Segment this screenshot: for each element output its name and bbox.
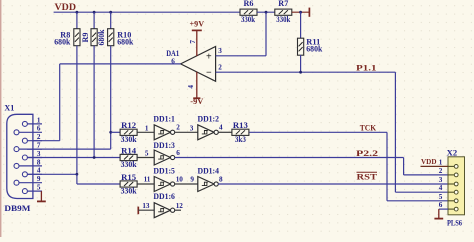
svg-text:3: 3 — [190, 124, 194, 132]
wire: R7 to bar — [292, 11, 309, 13]
svg-text:13: 13 — [142, 202, 150, 210]
svg-text:7: 7 — [189, 40, 197, 44]
svg-text:330k: 330k — [121, 135, 138, 144]
svg-text:330k: 330k — [241, 15, 255, 24]
svg-text:2: 2 — [439, 167, 443, 175]
X1 pin 9 — [17, 182, 43, 184]
svg-text:5: 5 — [439, 193, 443, 201]
svg-text:PLS6: PLS6 — [447, 219, 462, 228]
svg-text:8: 8 — [219, 175, 223, 183]
svg-text:4: 4 — [219, 124, 223, 132]
resistor R12 — [120, 129, 137, 135]
inverter DD1:5 — [154, 177, 170, 192]
wire: X1.4 to R8 column — [27, 173, 77, 175]
svg-text:P1.1: P1.1 — [356, 64, 377, 73]
power port VDD (X2 pin1) — [421, 165, 449, 167]
X1 pin 7 — [17, 148, 43, 150]
svg-text:-9V: -9V — [190, 97, 203, 106]
wire: X1.3 to R14 — [27, 157, 120, 159]
svg-text:DD1:4: DD1:4 — [198, 166, 220, 175]
svg-text:330k: 330k — [276, 15, 290, 24]
junction: R8/X1.4 — [76, 173, 79, 176]
ground bar (DD1:6 input) — [137, 207, 139, 215]
resistor R10 — [110, 12, 112, 29]
junction: rail/R9 — [93, 11, 96, 14]
svg-text:P2.2: P2.2 — [356, 149, 378, 158]
wire: R15 to DD1:5 — [137, 183, 154, 185]
svg-text:4: 4 — [439, 184, 443, 192]
power port +9V — [196, 30, 198, 56]
svg-text:6: 6 — [37, 125, 41, 133]
X2 pin 6 — [448, 208, 454, 210]
wire: DD1:4 out / net RST to X2.3 — [218, 183, 448, 185]
svg-text:−: − — [206, 68, 212, 79]
svg-text:1: 1 — [145, 124, 149, 132]
svg-text:R6: R6 — [244, 0, 254, 8]
svg-text:1: 1 — [439, 158, 443, 166]
wire: R14 to DD1:3 — [137, 157, 154, 159]
connector X1 DB9M — [7, 114, 33, 198]
resistor R15 — [120, 181, 137, 187]
svg-text:8: 8 — [37, 158, 41, 166]
svg-text:3: 3 — [439, 176, 443, 184]
svg-text:6: 6 — [439, 201, 443, 209]
svg-text:680k: 680k — [97, 29, 106, 46]
svg-text:R7: R7 — [278, 0, 288, 8]
svg-text:DD1:5: DD1:5 — [153, 166, 175, 175]
svg-text:4: 4 — [187, 85, 195, 89]
wire: node to R12 — [111, 131, 120, 133]
svg-text:X2: X2 — [447, 149, 458, 158]
X1 pin 5 — [25, 190, 42, 192]
svg-text:3k3: 3k3 — [235, 135, 246, 144]
wire: DD1:5 to DD1:4 — [175, 183, 198, 185]
junction: P1.1/R11 — [299, 71, 302, 74]
svg-text:TCK: TCK — [360, 124, 377, 133]
svg-text:10: 10 — [176, 175, 184, 183]
junction: R9/X1.3 — [93, 156, 96, 159]
op-amp DA1 — [181, 47, 216, 82]
resistor R8 — [76, 12, 78, 29]
wire: DD1:2 to R13 — [218, 131, 231, 133]
resistor R7 — [275, 9, 292, 15]
wire: R13 to X2.5 / net TCK — [249, 131, 387, 133]
wire: DD1:6 out stub — [175, 209, 181, 211]
connector X2 PLS6 — [448, 157, 465, 215]
svg-text:X1: X1 — [4, 104, 14, 113]
junction: rail/R10 — [109, 11, 112, 14]
svg-text:680k: 680k — [306, 45, 323, 54]
junction: rail/R8 — [76, 11, 79, 14]
junction: R6/R7/DA1+ — [265, 11, 268, 14]
svg-text:3: 3 — [37, 150, 41, 158]
svg-text:1: 1 — [37, 116, 41, 124]
X1 pin 3 — [25, 157, 42, 159]
svg-text:+9V: +9V — [190, 19, 205, 28]
svg-text:11: 11 — [144, 175, 151, 183]
power port -9V — [196, 72, 198, 98]
wire: DA1 pin3 to R6/R7 node — [216, 55, 266, 57]
X2 pin 1 — [448, 165, 454, 167]
X1 pin 2 — [25, 140, 42, 142]
inverter DD1:2 — [198, 125, 214, 140]
inverter DD1:3 — [154, 150, 170, 165]
wire: DD1:1 to DD1:2 — [175, 131, 198, 133]
svg-text:2: 2 — [176, 124, 180, 132]
svg-text:12: 12 — [176, 202, 184, 210]
resistor R13 — [232, 129, 249, 135]
svg-text:R12: R12 — [121, 121, 136, 130]
svg-text:R14: R14 — [121, 146, 136, 155]
resistor R14 — [120, 154, 137, 160]
svg-text:680k: 680k — [117, 38, 134, 47]
resistor R9 — [93, 12, 95, 29]
svg-text:9: 9 — [37, 175, 41, 183]
svg-text:R9: R9 — [81, 33, 90, 43]
inverter DD1:4 — [198, 177, 214, 192]
wire: X1.7 jog up to R10 node — [27, 148, 111, 150]
wire: VDD rail — [54, 11, 240, 13]
svg-text:330k: 330k — [121, 160, 138, 169]
svg-text:2: 2 — [37, 133, 41, 141]
X2 pin 2 — [448, 174, 454, 176]
X1 pin 6 — [17, 131, 43, 133]
svg-text:680k: 680k — [54, 38, 71, 47]
svg-text:R15: R15 — [121, 173, 136, 182]
svg-text:7: 7 — [37, 142, 41, 150]
wire: DA1 out to X1.2 — [60, 63, 181, 65]
wire: R6 to R7 node — [257, 11, 275, 13]
inverter DD1:1 — [154, 125, 170, 140]
svg-text:4: 4 — [37, 167, 41, 175]
wire: R8 column to R15 — [76, 174, 78, 184]
X1 pin 8 — [17, 165, 43, 167]
junction: R10/R12/X1.7 — [109, 131, 112, 134]
svg-text:RST: RST — [357, 172, 378, 181]
svg-text:6: 6 — [176, 149, 180, 157]
svg-text:DD1:2: DD1:2 — [198, 114, 220, 123]
svg-text:2: 2 — [218, 64, 222, 72]
svg-text:VDD: VDD — [55, 3, 77, 13]
svg-text:DB9M: DB9M — [4, 204, 31, 213]
ground (X2 pin 6) — [439, 208, 448, 210]
X2 pin 4 — [448, 191, 454, 193]
svg-text:330k: 330k — [121, 187, 138, 196]
inverter DD1:6 — [154, 203, 170, 218]
power bar (rail end) — [308, 8, 310, 17]
ground (X1 pin 5) — [40, 190, 43, 192]
svg-text:DD1:3: DD1:3 — [153, 141, 175, 150]
wire: P1.1 down to X2.4 — [394, 72, 396, 192]
X2 pin 5 — [448, 200, 454, 202]
junction: R7/R11 — [299, 11, 302, 14]
X1 pin 1 — [25, 123, 42, 125]
svg-text:VDD: VDD — [421, 157, 437, 166]
resistor R6 — [240, 9, 257, 15]
svg-text:R13: R13 — [233, 121, 248, 130]
wire: DA1 pin2 / net P1.1 — [216, 71, 396, 73]
svg-text:5: 5 — [145, 150, 149, 158]
svg-text:+: + — [206, 51, 212, 62]
svg-text:5: 5 — [37, 184, 41, 192]
svg-text:DD1:6: DD1:6 — [153, 192, 175, 201]
resistor R11 — [300, 12, 302, 38]
wire: bar to DD1:6 — [138, 209, 154, 211]
wire: DD1:3 out / net P2.2 to X2.2 — [175, 157, 404, 159]
svg-text:DD1:1: DD1:1 — [153, 114, 175, 123]
wire: R12 to DD1:1 — [137, 131, 154, 133]
X2 pin 3 — [448, 183, 454, 185]
svg-text:3: 3 — [218, 47, 222, 55]
X1 pin 4 — [25, 173, 42, 175]
svg-text:9: 9 — [190, 175, 194, 183]
